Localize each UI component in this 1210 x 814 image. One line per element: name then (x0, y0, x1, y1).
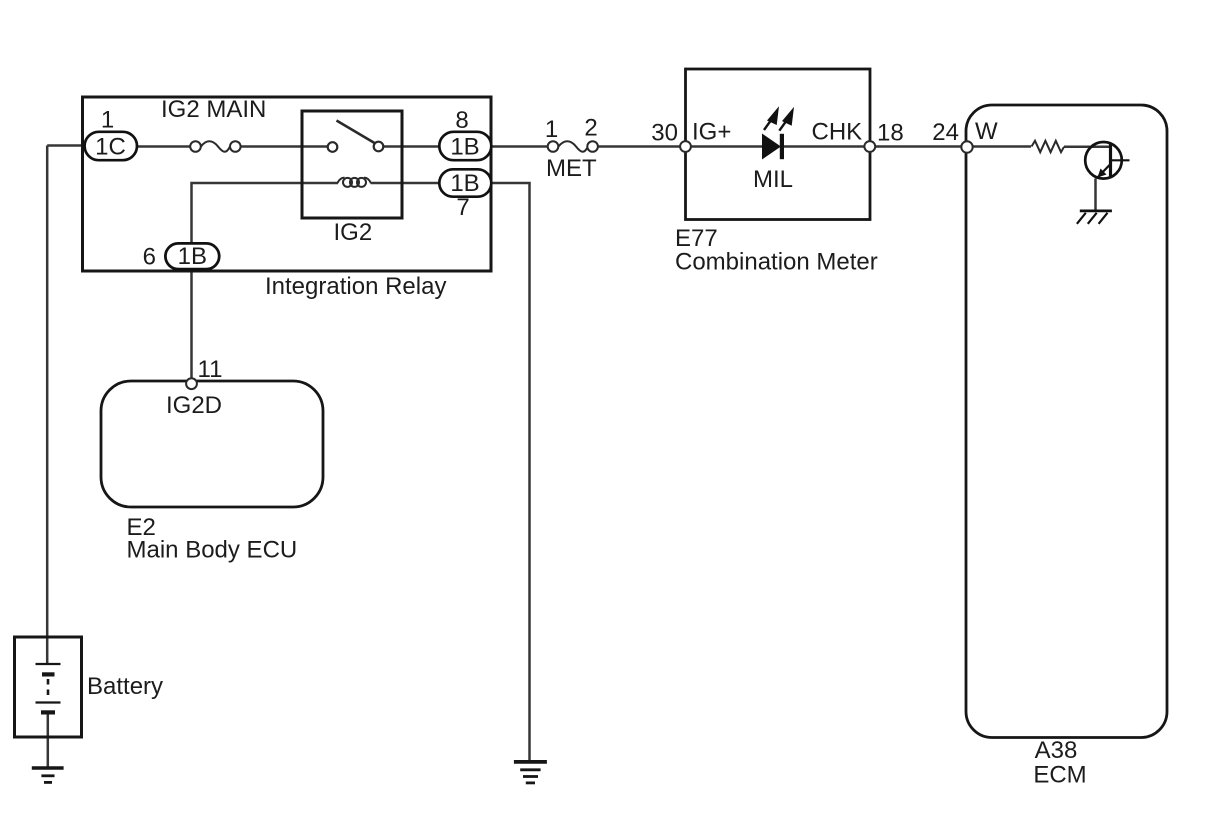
wire node 30 to LED anode (690, 145, 763, 148)
wire coil to 1B pin7 (371, 182, 440, 185)
svg-text:MIL: MIL (753, 166, 793, 193)
svg-text:ECM: ECM (1033, 762, 1086, 789)
svg-text:1B: 1B (450, 170, 479, 197)
ground (battery) (32, 768, 64, 782)
svg-text:IG2D: IG2D (166, 392, 222, 419)
main body ECU box E2 (101, 381, 323, 507)
svg-text:CHK: CHK (812, 119, 863, 146)
svg-text:11: 11 (198, 356, 223, 383)
wire 1B pin8 to MET fuse (491, 145, 548, 148)
wire coil row: IG2 box left to coil (302, 182, 338, 185)
wire coil to left then down to 1B pin6 (192, 183, 303, 243)
connector oval 1C pin1 (85, 107, 137, 161)
svg-text:IG2: IG2 (334, 219, 373, 246)
svg-text:Battery: Battery (87, 673, 163, 700)
svg-text:6: 6 (143, 244, 156, 271)
svg-text:1: 1 (545, 116, 558, 143)
node 30 (680, 141, 691, 152)
wire battery feed vertical down to battery (46, 146, 49, 665)
node 18 (864, 141, 875, 152)
svg-text:24: 24 (932, 119, 959, 146)
svg-text:Integration Relay: Integration Relay (265, 273, 446, 300)
node 24 (961, 141, 972, 152)
ground (center, below 1B pin7 wire) (514, 762, 547, 783)
svg-text:2: 2 (584, 115, 597, 142)
wire main row: 1C to fuse IG2 MAIN (137, 145, 191, 148)
resistor (ECM internal) (1032, 141, 1065, 152)
ground (ECM internal, hatched) (1077, 211, 1112, 224)
svg-text:MET: MET (546, 155, 597, 182)
svg-text:IG+: IG+ (692, 119, 731, 146)
svg-text:Main Body ECU: Main Body ECU (127, 537, 298, 564)
relay switch contacts and blade (328, 121, 384, 152)
combination meter box E77 (686, 69, 871, 220)
Integration Relay outer box (83, 97, 492, 271)
LED arrow 1 (764, 108, 778, 130)
svg-text:Combination Meter: Combination Meter (675, 249, 878, 276)
svg-text:W: W (975, 118, 998, 145)
connector oval 1B pin8 (439, 107, 491, 161)
fuse IG2 MAIN (190, 141, 240, 152)
svg-text:A38: A38 (1035, 737, 1078, 764)
wire 1B pin6 down to node 11 of E2 (190, 270, 193, 379)
LED MIL diode (763, 134, 785, 159)
ECM box A38 (966, 105, 1167, 738)
LED arrow 2 (779, 109, 793, 131)
connector oval 1B pin6 (143, 243, 220, 271)
svg-text:1C: 1C (95, 134, 126, 161)
battery box (15, 637, 82, 737)
wire resistor to transistor base (1064, 146, 1109, 149)
wire fuse to switch left contact (241, 145, 329, 148)
relay coil (338, 178, 371, 187)
wire MET fuse to node 30 (598, 145, 681, 148)
svg-text:1B: 1B (178, 243, 207, 270)
svg-text:18: 18 (877, 120, 904, 147)
wire 1B pin7 right then down to ground (491, 183, 530, 761)
svg-text:7: 7 (456, 194, 469, 221)
svg-text:1B: 1B (450, 134, 479, 161)
wire LED cathode to node 18 (784, 145, 865, 148)
svg-text:30: 30 (651, 120, 678, 147)
connector oval 1B pin7 (439, 169, 491, 221)
node 11 (186, 378, 197, 389)
fuse MET (548, 141, 598, 152)
wire transistor emitter to ground (1094, 179, 1097, 211)
relay IG2 box (302, 111, 402, 218)
svg-text:1: 1 (101, 107, 114, 134)
wire node 18 to node 24 (875, 145, 962, 148)
svg-text:IG2 MAIN: IG2 MAIN (161, 96, 266, 123)
wire battery feed horizontal from 1C to left corner (47, 144, 84, 147)
battery cell plates (36, 664, 61, 715)
wire battery bottom plate to ground (47, 714, 50, 767)
transistor Q (ECM internal) (1085, 142, 1129, 179)
wire switch right contact to 1B pin8 (384, 145, 440, 148)
wire node 24 to resistor (972, 145, 1031, 148)
svg-text:8: 8 (455, 107, 468, 134)
